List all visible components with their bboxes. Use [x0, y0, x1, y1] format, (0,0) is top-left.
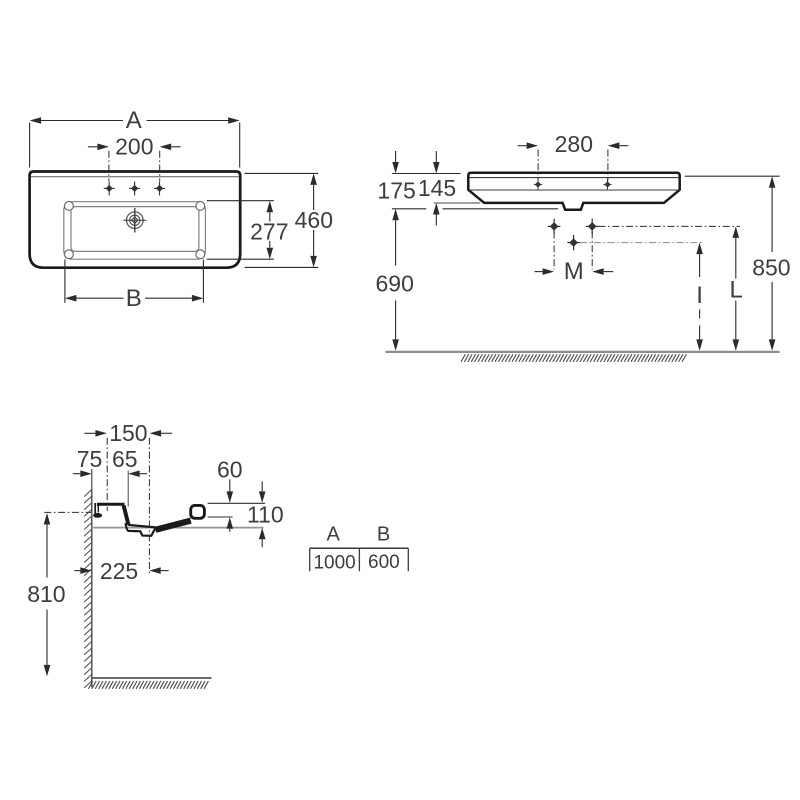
side section: bowl front slope	[156, 521, 191, 530]
extension line at 60 level	[208, 516, 233, 518]
svg-text:A: A	[126, 107, 142, 134]
washbasin plan view: outer body outline	[30, 172, 241, 268]
dimension 460: dimension line with arrows	[310, 173, 317, 185]
table: top border	[310, 547, 409, 549]
dimension 810: top dash-dot reference line	[44, 511, 91, 513]
dimension 850: vertical line with arrows	[769, 176, 776, 188]
side section: basin cut profile - deck top	[97, 503, 125, 506]
svg-text:150: 150	[109, 420, 147, 446]
svg-text:200: 200	[115, 133, 153, 159]
dimension 175/145: top extension line	[392, 173, 461, 175]
dimension 277: extension lines	[207, 200, 274, 202]
side section: front rim hook	[191, 505, 205, 518]
dimension 145: bottom reference line (gray)	[434, 202, 480, 204]
side section: wall bracket	[94, 503, 96, 517]
front view: rim upper thin line	[469, 177, 679, 179]
dimension L: vertical line with arrows	[733, 226, 740, 238]
table: vertical separators	[309, 548, 311, 571]
dimension 150: arrows	[84, 432, 95, 434]
front view: wall fixing hole markers	[550, 222, 559, 231]
dimension 850: top extension line	[685, 175, 780, 177]
dimension A: dimension line with arrows	[41, 120, 123, 122]
side section: bowl back wall	[124, 506, 129, 525]
dash-dot line from right fixing hole to dimension L	[599, 225, 741, 227]
dimension M: arrows	[535, 271, 543, 273]
svg-text:225: 225	[100, 558, 138, 584]
svg-text:810: 810	[27, 581, 65, 607]
dimension 175: bottom reference line	[392, 208, 426, 210]
dimension 200: dash-dot centerlines to outer faucet holes	[108, 151, 110, 181]
svg-text:B: B	[126, 285, 142, 312]
plan view: basin rim inner edge	[71, 207, 199, 252]
side section: floor line	[92, 677, 212, 679]
dash-dot drop lines below fixing holes	[553, 232, 555, 270]
svg-text:B: B	[377, 523, 390, 545]
svg-text:L: L	[730, 277, 743, 304]
svg-text:277: 277	[250, 218, 288, 244]
svg-text:600: 600	[368, 552, 400, 573]
svg-text:M: M	[564, 258, 584, 285]
svg-text:175: 175	[377, 178, 415, 204]
svg-text:850: 850	[752, 254, 790, 280]
svg-text:A: A	[327, 524, 341, 546]
side section: wall line	[91, 490, 93, 688]
side section: underside with drain boss	[126, 523, 156, 536]
extension line at rim top level	[208, 502, 265, 504]
gray reference line at 110 level	[92, 527, 264, 529]
dimension B: extension lines	[64, 260, 66, 303]
washbasin front view: body outline	[468, 173, 679, 210]
dimension 60: arrows	[229, 479, 231, 491]
dimension 200: arrows	[88, 146, 98, 148]
side section: wall hatching	[84, 490, 91, 497]
side section: dash-dot centerline of drain	[148, 438, 150, 576]
plan view: basin rim outer edge	[64, 202, 206, 260]
dimension 690: vertical line with arrows, shared top arrow for 175	[392, 209, 399, 221]
dimension B: dimension line with arrows	[76, 297, 123, 299]
front view: floor hatching	[461, 354, 465, 362]
dimension 280: arrows	[518, 145, 527, 147]
wall extension line above wall top	[91, 469, 93, 490]
dimension I: vertical line with arrows	[696, 243, 703, 255]
dimension 225: arrows	[74, 570, 80, 572]
plan view: three faucet holes	[106, 185, 113, 192]
dimension 110: arrows	[261, 481, 263, 491]
side section: floor hatching	[89, 681, 93, 689]
svg-text:280: 280	[555, 131, 593, 157]
svg-text:75: 75	[77, 446, 103, 472]
dimension 277: dimension line with arrows	[267, 201, 274, 213]
front view: rim lower thin line	[469, 189, 679, 191]
svg-text:690: 690	[376, 270, 414, 296]
front view: floor line	[385, 351, 779, 353]
dimension 145: bottom arrow	[435, 215, 437, 226]
dash-dot line from lower fixing hole to dimension I	[580, 242, 702, 244]
dimension A: extension lines	[29, 123, 31, 168]
dimension 145: top arrow	[435, 151, 437, 162]
svg-text:1000: 1000	[313, 552, 355, 573]
plan view: drain symbol	[127, 212, 144, 229]
side section: dash-dot centerline of faucet hole	[106, 438, 108, 511]
side section: reference line at 65	[127, 471, 129, 507]
dimension 460: extension lines	[245, 172, 319, 174]
svg-text:110: 110	[247, 502, 284, 528]
svg-text:65: 65	[112, 446, 138, 472]
svg-text:I: I	[696, 282, 703, 309]
plan view: basin corner circles	[65, 202, 74, 211]
dimension 75/65: arrows	[73, 473, 81, 475]
front view: two fixing hole markers on rim	[535, 181, 541, 187]
dimension 280: dash-dot centerlines	[537, 150, 539, 181]
side section: bowl bottom	[128, 525, 156, 528]
dimension 175: top arrow	[395, 151, 397, 162]
svg-text:460: 460	[295, 207, 333, 233]
dimension 810: vertical line with arrows	[44, 513, 51, 525]
svg-text:60: 60	[217, 457, 243, 483]
plan view: inner top edge line	[31, 176, 239, 178]
svg-text:145: 145	[418, 175, 456, 201]
